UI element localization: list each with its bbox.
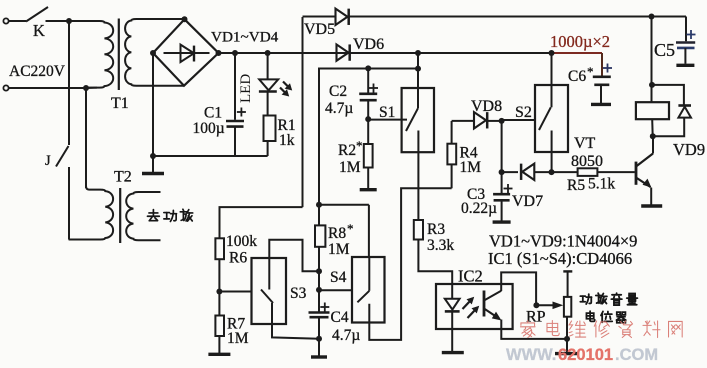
node bridge top vertex: [182, 16, 188, 22]
potentiometer RP: [564, 297, 571, 317]
svg-text:C2: C2: [329, 83, 347, 100]
svg-text:VD1~VD4: VD1~VD4: [211, 29, 279, 46]
node S3 feed junction: [316, 268, 322, 274]
resistor R1: [264, 116, 276, 142]
svg-text:R8: R8: [328, 225, 346, 242]
svg-text:C4: C4: [331, 309, 349, 326]
capacitor C1: [234, 53, 236, 120]
wire rail to S2: [551, 53, 553, 107]
wire S4 control: [319, 289, 352, 291]
bridge inner diode: [164, 52, 210, 54]
wire bridge minus down: [152, 53, 154, 156]
wire S1 out to R3: [417, 131, 419, 221]
wire rail to S1: [417, 53, 419, 108]
IC2 light arrows: [463, 301, 471, 310]
node C4 bottom: [316, 336, 322, 342]
svg-text:*: *: [347, 221, 354, 236]
wire R5 to base: [597, 171, 634, 173]
svg-text:S3: S3: [290, 285, 307, 302]
transformer T1 secondary winding: [125, 19, 184, 86]
IC2 phototransistor: [483, 291, 486, 317]
node RP bottom: [564, 336, 570, 342]
svg-text:100k: 100k: [226, 233, 257, 250]
svg-text:LED: LED: [238, 74, 254, 103]
node (N to T2 tap): [83, 85, 89, 91]
svg-text:VD7: VD7: [512, 193, 543, 210]
svg-text:T2: T2: [114, 169, 132, 186]
optocoupler IC2 box: [436, 284, 513, 329]
ground (R2): [360, 188, 377, 191]
wire R3 to IC2 LED: [418, 240, 452, 299]
ground (bridge minus): [152, 156, 154, 173]
ground (RP): [555, 352, 579, 355]
transformer T2 secondary winding: [126, 192, 160, 240]
ground (C6): [591, 103, 611, 106]
ground (VT emitter): [641, 204, 662, 207]
svg-text:4.7µ: 4.7µ: [325, 100, 353, 117]
node VD7 left: [499, 169, 505, 175]
node S2 control: [499, 118, 505, 124]
node C2 bottom / S1 control: [365, 116, 371, 122]
ground (C5): [676, 64, 694, 67]
ground (C3): [493, 220, 511, 223]
capacitor C4: [318, 290, 320, 312]
node R8 top: [316, 202, 322, 208]
wire R8 top to S4 feed: [319, 204, 369, 206]
wire wiper arrow: [536, 304, 554, 306]
wire top rail: [349, 16, 687, 18]
svg-text:VD1~VD9:1N4004×9: VD1~VD9:1N4004×9: [489, 232, 637, 251]
switch S3 blade: [261, 290, 273, 304]
svg-text:S1: S1: [379, 104, 395, 121]
svg-text:620101: 620101: [558, 346, 613, 363]
wire VD9 branch: [652, 85, 684, 106]
svg-text:C6: C6: [568, 68, 586, 85]
svg-text:1M: 1M: [339, 159, 361, 176]
node S1 riser junction: [415, 66, 421, 72]
svg-text:1k: 1k: [279, 132, 295, 149]
wire divider to S3 control: [219, 291, 251, 293]
node bridge left vertex: [150, 50, 156, 56]
resistor R8: [318, 205, 320, 226]
transformer T1 core: [118, 19, 120, 91]
bridge rectifier VD1~VD4 diamond: [153, 19, 219, 85]
wire VD8 anode: [452, 120, 474, 122]
svg-text:VT: VT: [574, 135, 596, 152]
watermark text: [520, 320, 535, 337]
diode VD6: [337, 44, 349, 60]
svg-text:8050: 8050: [571, 153, 603, 170]
resistor R3: [414, 220, 423, 240]
resistor R6: [215, 238, 224, 259]
svg-text:C5: C5: [654, 40, 675, 60]
transistor VT 8050: [635, 162, 638, 185]
svg-text:.COM: .COM: [615, 346, 658, 363]
wire top rail left: [303, 16, 336, 18]
node relay bottom / collector: [650, 133, 656, 139]
svg-text:VD5: VD5: [304, 21, 335, 38]
wire minus rail to R1/C1 bottoms: [153, 155, 268, 157]
ground (R7): [218, 336, 220, 353]
wire VD8 to node: [488, 120, 502, 122]
svg-text:AC220V: AC220V: [9, 63, 66, 80]
node (K to T1 top): [66, 18, 72, 24]
wire emitter to ground: [650, 188, 652, 205]
capacitor C5: [685, 17, 687, 42]
wire S3 top feed: [269, 240, 319, 271]
node S2 feed tap: [549, 50, 555, 56]
switch S4 box: [352, 257, 385, 323]
wire C6 feed: [601, 53, 603, 76]
transformer T2 core: [119, 188, 121, 243]
node minus rail: [150, 153, 156, 159]
switch S2 blade: [539, 107, 551, 130]
svg-text:WWW.: WWW.: [506, 346, 556, 363]
svg-text:VD8: VD8: [471, 98, 502, 115]
switch S1 box: [402, 88, 434, 152]
wire top rail to relay: [651, 17, 653, 103]
resistor R2: [367, 119, 369, 144]
wire C2 rail: [319, 69, 418, 205]
switch K blade: [26, 7, 48, 22]
wire divider feed: [220, 207, 303, 238]
node C4 top / S4 control: [316, 287, 322, 293]
wire VD5 riser: [302, 17, 304, 207]
ground (C4/S3): [318, 339, 320, 356]
switch S1 blade: [406, 108, 418, 131]
svg-text:VD6: VD6: [353, 36, 384, 53]
svg-text:1000µ×2: 1000µ×2: [550, 32, 610, 51]
node collector/wiper: [533, 302, 539, 308]
LED light arrows: [283, 82, 289, 88]
wire N-node down to T2 primary: [85, 88, 87, 188]
wire DC plus rail: [219, 52, 554, 54]
svg-text:J: J: [45, 153, 51, 169]
svg-text:C1: C1: [204, 105, 222, 122]
svg-text:1M: 1M: [460, 159, 482, 176]
label 功放音量: [580, 294, 591, 304]
wire: [46, 20, 70, 22]
svg-text:5.1k: 5.1k: [588, 176, 615, 193]
wire K-node down to switch J: [68, 21, 70, 145]
wire S2 node to R5: [552, 171, 578, 173]
svg-text:R6: R6: [229, 250, 247, 267]
wire S2 out: [551, 131, 553, 173]
node C1 tap: [232, 50, 238, 56]
wire: [318, 271, 320, 290]
IC2 LED: [445, 299, 460, 310]
wire to S2 control: [502, 119, 535, 121]
diode VD8: [474, 112, 486, 128]
node relay feed: [649, 14, 655, 20]
svg-text:K: K: [33, 21, 45, 40]
svg-text:R2: R2: [338, 142, 356, 159]
svg-text:0.22µ: 0.22µ: [461, 200, 497, 217]
svg-text:1M: 1M: [227, 330, 249, 347]
capacitor C6: [593, 76, 611, 79]
node VD9 top tap: [649, 82, 655, 88]
terminal L (top mains input): [3, 18, 8, 23]
label 电位器: [586, 311, 594, 321]
svg-text:S2: S2: [515, 104, 532, 121]
switch S2 box: [535, 85, 568, 152]
switch J blade: [56, 146, 69, 167]
LED indicator: [267, 53, 269, 79]
ground (IC2 LED): [442, 351, 464, 354]
svg-text:IC2: IC2: [458, 267, 483, 286]
svg-text:1M: 1M: [328, 241, 350, 258]
switch S4 vertical contact: [368, 257, 370, 291]
svg-text:3.3k: 3.3k: [427, 237, 454, 254]
svg-text:R3: R3: [427, 221, 445, 238]
resistor R5: [578, 168, 598, 176]
diode VD7: [502, 171, 518, 173]
svg-text:100µ: 100µ: [193, 120, 225, 137]
transformer T1 primary winding: [69, 21, 113, 88]
wire: [69, 20, 97, 22]
svg-text:T1: T1: [111, 95, 129, 112]
wire RP to ground: [566, 339, 568, 352]
node R6/R7 divider: [216, 289, 222, 295]
node S2 output: [549, 169, 555, 175]
switch S4 blade: [357, 291, 369, 303]
wire R6 to node: [218, 259, 220, 291]
svg-text:*: *: [356, 138, 363, 153]
wire S4 out to R4: [369, 188, 451, 340]
wire J to T2 primary bottom: [68, 167, 70, 240]
diode VD5: [336, 9, 348, 25]
node S1 feed tap: [415, 50, 421, 56]
svg-text:4.7µ: 4.7µ: [332, 327, 360, 344]
wire relay to collector node: [651, 119, 654, 136]
capacitor C3: [501, 172, 503, 193]
svg-text:*: *: [587, 64, 594, 79]
switch S3 vertical contact: [268, 258, 270, 290]
label 去功放 (to power amp): [147, 210, 159, 221]
wire: [86, 87, 97, 89]
node C2 top: [365, 65, 371, 71]
svg-text:R5: R5: [567, 177, 585, 194]
transformer T2 primary winding: [69, 186, 114, 240]
wire S3 out: [272, 303, 319, 339]
wire node down to VD7: [501, 121, 503, 172]
wire S4 top feed: [368, 205, 370, 257]
terminal N (bottom mains input): [3, 85, 8, 90]
switch S3 box: [252, 258, 287, 324]
svg-text:IC1 (S1~S4):CD4066: IC1 (S1~S4):CD4066: [488, 249, 632, 268]
resistor R7: [218, 292, 220, 316]
capacitor C2: [367, 69, 369, 93]
resistor R4: [451, 164, 453, 188]
wire: [9, 87, 86, 89]
wire C2 to S1 control: [368, 119, 407, 121]
node LED tap: [265, 50, 271, 56]
diode VD9: [678, 104, 691, 107]
wire: [9, 20, 26, 22]
node bridge right vertex: [216, 50, 222, 56]
svg-text:VD9: VD9: [673, 140, 705, 159]
svg-text:S4: S4: [330, 269, 347, 286]
relay coil K box: [636, 102, 669, 119]
